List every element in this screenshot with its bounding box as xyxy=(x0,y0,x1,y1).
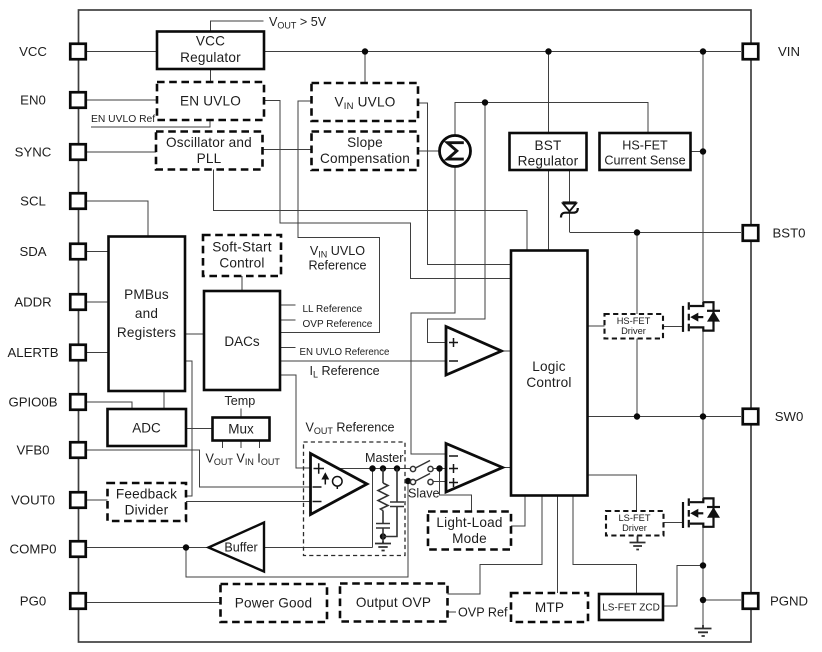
svg-text:ALERTB: ALERTB xyxy=(7,345,58,360)
svg-text:BST0: BST0 xyxy=(773,226,806,241)
svg-text:VCC: VCC xyxy=(19,44,47,59)
svg-text:Driver: Driver xyxy=(622,523,647,533)
svg-text:Feedback: Feedback xyxy=(116,487,177,502)
svg-text:Power Good: Power Good xyxy=(235,596,313,611)
svg-text:Slope: Slope xyxy=(347,135,383,150)
svg-text:Compensation: Compensation xyxy=(320,151,410,166)
svg-text:Control: Control xyxy=(219,256,264,271)
svg-text:PLL: PLL xyxy=(197,151,222,166)
svg-text:Logic: Logic xyxy=(532,359,566,374)
svg-text:VIN UVLO: VIN UVLO xyxy=(335,95,396,113)
svg-text:SCL: SCL xyxy=(20,194,46,209)
svg-text:Output OVP: Output OVP xyxy=(356,595,431,610)
svg-text:Master: Master xyxy=(365,451,404,465)
svg-text:Soft-Start: Soft-Start xyxy=(212,240,271,255)
svg-text:Buffer: Buffer xyxy=(224,541,257,555)
svg-text:VIN UVLO: VIN UVLO xyxy=(310,244,365,260)
svg-text:EN UVLO Reference: EN UVLO Reference xyxy=(300,347,390,358)
svg-text:SW0: SW0 xyxy=(775,409,804,424)
svg-text:COMP0: COMP0 xyxy=(10,542,57,557)
svg-text:VFB0: VFB0 xyxy=(17,443,50,458)
svg-text:Divider: Divider xyxy=(125,503,169,518)
svg-text:SDA: SDA xyxy=(19,244,46,259)
svg-text:Light-Load: Light-Load xyxy=(436,515,502,530)
svg-text:and: and xyxy=(135,306,158,321)
svg-text:OVP Reference: OVP Reference xyxy=(303,319,373,330)
svg-text:VOUT0: VOUT0 xyxy=(11,493,55,508)
svg-text:Mux: Mux xyxy=(228,422,254,437)
svg-text:LS-FET ZCD: LS-FET ZCD xyxy=(602,603,660,614)
svg-text:GPIO0B: GPIO0B xyxy=(8,395,57,410)
svg-text:EN UVLO Ref: EN UVLO Ref xyxy=(91,114,155,125)
svg-text:SYNC: SYNC xyxy=(15,145,52,160)
svg-text:Reference: Reference xyxy=(308,259,366,273)
svg-text:DACs: DACs xyxy=(224,334,260,349)
svg-text:Current Sense: Current Sense xyxy=(604,154,685,168)
svg-text:PG0: PG0 xyxy=(20,594,46,609)
svg-text:VIN: VIN xyxy=(778,44,800,59)
svg-text:Mode: Mode xyxy=(452,531,487,546)
svg-text:Temp: Temp xyxy=(225,394,256,408)
svg-text:Regulator: Regulator xyxy=(180,50,241,65)
svg-text:EN0: EN0 xyxy=(20,93,46,108)
svg-text:Registers: Registers xyxy=(117,325,176,340)
svg-text:VCC: VCC xyxy=(196,34,225,49)
svg-text:PGND: PGND xyxy=(770,594,808,609)
svg-text:ADDR: ADDR xyxy=(14,295,51,310)
svg-text:HS-FET: HS-FET xyxy=(617,316,651,326)
svg-text:BST: BST xyxy=(534,138,561,153)
svg-text:HS-FET: HS-FET xyxy=(622,139,668,153)
svg-text:Regulator: Regulator xyxy=(518,154,579,169)
svg-text:OVP Ref: OVP Ref xyxy=(458,606,508,620)
svg-text:LL Reference: LL Reference xyxy=(303,304,363,315)
svg-text:EN UVLO: EN UVLO xyxy=(180,94,241,109)
svg-text:Control: Control xyxy=(526,375,571,390)
svg-text:Driver: Driver xyxy=(621,326,646,336)
svg-text:ADC: ADC xyxy=(132,421,161,436)
svg-text:MTP: MTP xyxy=(535,600,564,615)
svg-text:Oscillator and: Oscillator and xyxy=(166,135,252,150)
svg-text:IL Reference: IL Reference xyxy=(310,364,380,380)
svg-text:LS-FET: LS-FET xyxy=(618,513,650,523)
svg-text:Slave: Slave xyxy=(408,487,440,501)
svg-text:PMBus: PMBus xyxy=(124,287,169,302)
